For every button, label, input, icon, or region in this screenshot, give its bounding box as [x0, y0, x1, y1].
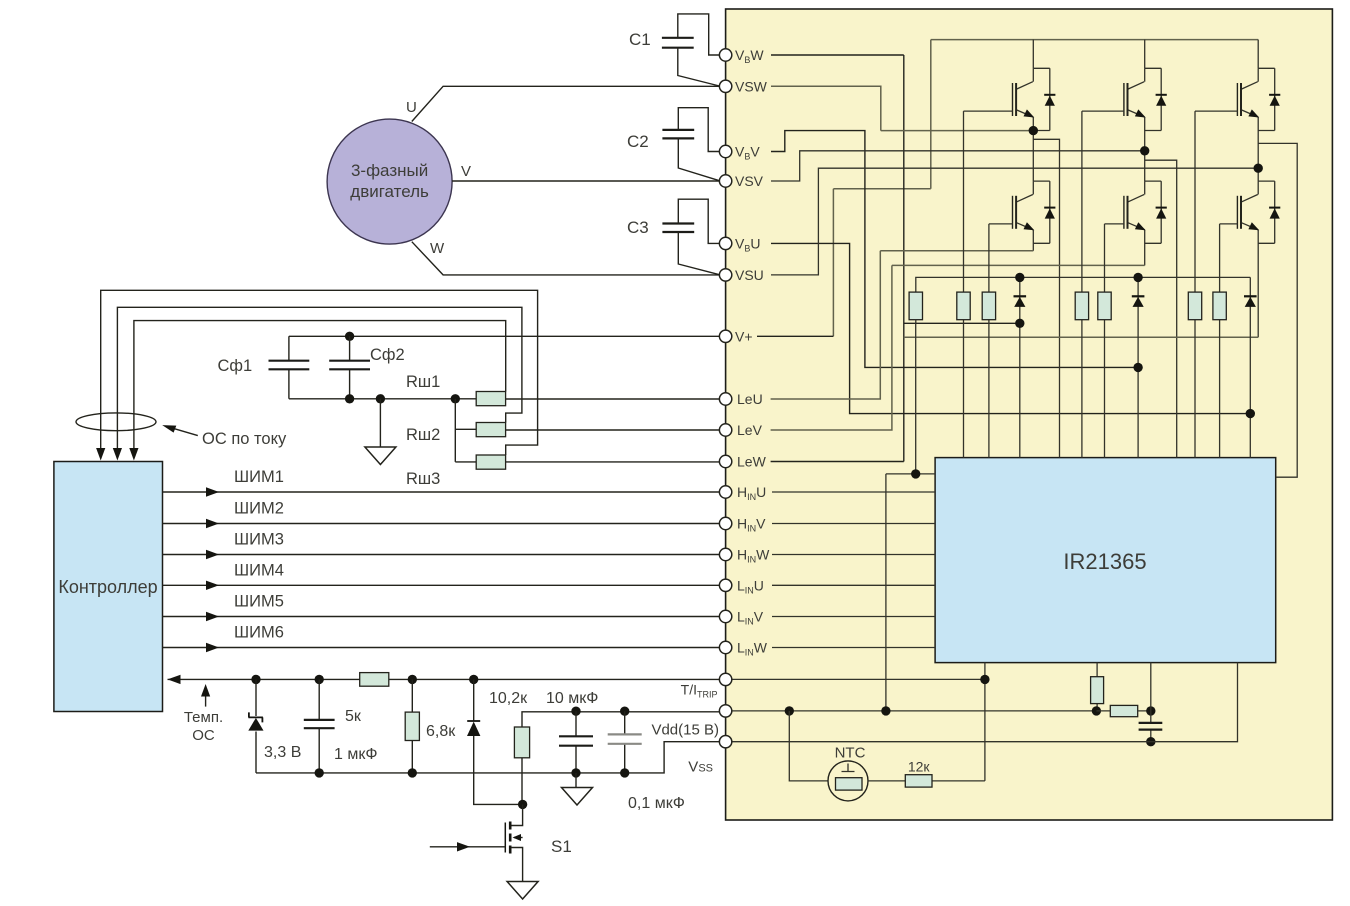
- motor M1 3-phase: [327, 119, 452, 244]
- wire V+ pin to rail: [757, 335, 833, 337]
- IGBT Q1 high-side W: [1032, 40, 1034, 69]
- wire VBU pin to bootstrap diode D3 anode: [771, 243, 1250, 413]
- wire Vdd pin rail inside module: [732, 710, 1097, 712]
- resistor Rboot (common bootstrap resistor): [909, 292, 922, 320]
- svg-text:W: W: [430, 240, 445, 257]
- svg-text:Контроллер: Контроллер: [58, 577, 157, 597]
- pin Vss: [719, 736, 731, 748]
- pin VBU: [719, 237, 731, 249]
- wire motor U to VSW: [412, 86, 720, 121]
- svg-text:10,2к: 10,2к: [489, 690, 528, 707]
- svg-text:V+: V+: [735, 328, 753, 344]
- wire PWM4: [163, 584, 720, 586]
- wire VBW pin to vertical bus: [771, 54, 904, 56]
- thermistor NTC: [828, 761, 868, 801]
- node Vdd gate-supply branch: [881, 706, 890, 715]
- wire PWM5: [163, 616, 720, 618]
- svg-text:3,3 В: 3,3 В: [264, 744, 301, 761]
- wire Rsh2 to LeV: [506, 429, 720, 431]
- svg-text:ШИМ6: ШИМ6: [234, 624, 284, 642]
- wire motor V to VSV: [452, 180, 719, 182]
- pin LinV: [719, 610, 731, 622]
- svg-text:LeU: LeU: [737, 391, 763, 407]
- node D1 anode junction: [1015, 319, 1024, 328]
- wire low-side U emitter to LeW bus: [904, 336, 1258, 338]
- capacitor Cf2: [349, 336, 351, 399]
- svg-text:C3: C3: [627, 218, 649, 237]
- capacitor C2: [662, 130, 694, 139]
- svg-text:двигатель: двигатель: [350, 182, 429, 201]
- wire feedback loop 3 (inner): [134, 321, 506, 450]
- wire Vdd to cap node: [1096, 710, 1150, 712]
- IR21365 driver IC U1: [935, 458, 1276, 663]
- svg-text:ШИМ1: ШИМ1: [234, 468, 284, 486]
- arrows into controller top: [96, 448, 105, 461]
- svg-text:IR21365: IR21365: [1063, 549, 1146, 574]
- svg-text:LeW: LeW: [737, 454, 767, 470]
- pin V+: [719, 330, 731, 342]
- current sense ellipse: [76, 413, 156, 431]
- svg-text:NTC: NTC: [835, 745, 866, 762]
- node R bottom junction: [1092, 706, 1101, 715]
- wire V+ filter rail: [289, 335, 719, 337]
- pin HinW: [719, 548, 731, 560]
- controller block: [54, 462, 163, 712]
- diode D1 bootstrap W: [1019, 277, 1021, 323]
- pin LeU: [719, 393, 731, 405]
- wire Rsh3 to LeW: [506, 461, 720, 463]
- svg-text:Vdd(15 В): Vdd(15 В): [651, 722, 719, 739]
- svg-text:Rш3: Rш3: [406, 470, 440, 488]
- wire VSW pin to half-bridge W midpoint: [771, 86, 881, 130]
- node zener junction: [251, 675, 260, 684]
- svg-text:ШИМ5: ШИМ5: [234, 593, 284, 611]
- svg-text:Сф1: Сф1: [218, 357, 253, 375]
- wire gate-supply node to IC and Vdd: [886, 323, 935, 711]
- wire filter ground rail: [289, 398, 476, 400]
- svg-text:T/ITRIP: T/ITRIP: [681, 682, 718, 700]
- wire VBV pin to bootstrap diode D2 anode: [771, 131, 1138, 368]
- wire U midpoint jog to IC VS3 (right side): [1258, 143, 1297, 477]
- wire T/Itrip pin to IC Itrip: [732, 663, 985, 781]
- svg-text:C2: C2: [627, 132, 649, 151]
- pin VSU: [719, 269, 731, 281]
- wire Vss pin to IC com: [732, 663, 1238, 742]
- wire bootstrap cathode bus: [916, 277, 1251, 292]
- node D3 anode junction: [1246, 409, 1255, 418]
- wire Itrip feedback line to controller: [168, 678, 720, 680]
- svg-text:VSS: VSS: [688, 759, 713, 776]
- svg-text:V: V: [461, 163, 471, 180]
- wire LeW pin to low U emitter: [771, 461, 904, 463]
- node gate-supply junction: [911, 469, 920, 478]
- IGBT Q2 low-side W: [1032, 131, 1034, 182]
- svg-text:3-фазный: 3-фазный: [351, 161, 428, 180]
- node diode VD2 top: [469, 675, 478, 684]
- node D2 anode junction: [1133, 363, 1142, 372]
- node filter ground branch: [376, 394, 385, 403]
- wire HinU input to IC: [772, 491, 935, 493]
- capacitor C 0,1uF: [624, 711, 626, 773]
- svg-text:VBW: VBW: [735, 47, 764, 65]
- IGBT Q4 low-side V: [1144, 151, 1146, 181]
- node half-bridge U midpoint: [1254, 164, 1263, 173]
- wire V midpoint jog to IC VS2: [1145, 160, 1177, 457]
- svg-text:ШИМ4: ШИМ4: [234, 561, 284, 579]
- IGBT Q6 low-side U: [1257, 168, 1259, 181]
- svg-text:Rш1: Rш1: [406, 373, 440, 391]
- node ground rail junctions: [315, 768, 324, 777]
- wire LinU input to IC: [772, 584, 935, 586]
- pin LinW: [719, 641, 731, 653]
- wire bootstrap diode D1 anode line: [904, 322, 1020, 324]
- node C 1uF top: [315, 675, 324, 684]
- svg-text:ШИМ3: ШИМ3: [234, 531, 284, 549]
- pin VBV: [719, 145, 731, 157]
- node D2 cathode on bus: [1133, 273, 1142, 282]
- wire VSU pin to half-bridge U midpoint: [771, 168, 1258, 275]
- svg-text:10 мкФ: 10 мкФ: [546, 690, 598, 707]
- ground under 10uF: [575, 773, 577, 787]
- node Vdd-NTC branch: [785, 706, 794, 715]
- node cap bottom on Vss: [1146, 737, 1155, 746]
- resistor R 5k (series): [360, 673, 389, 687]
- wire IC pin to cap: [1150, 663, 1152, 742]
- wire PWM1: [163, 491, 720, 493]
- svg-text:C1: C1: [629, 30, 651, 49]
- capacitor C3: [662, 224, 694, 233]
- pin LinU: [719, 579, 731, 591]
- pin VSW: [719, 80, 731, 92]
- svg-text:VSU: VSU: [735, 267, 764, 283]
- resistor Rg2 (low W gate): [988, 224, 990, 458]
- wire motor W to VSU: [412, 242, 720, 275]
- resistor R 6,8k: [411, 679, 413, 773]
- svg-text:Сф2: Сф2: [370, 346, 405, 364]
- wire VSV pin to half-bridge V midpoint: [771, 151, 1145, 181]
- zener diode VD1 3,3 V: [255, 679, 257, 716]
- label OC po toku with arrow: [166, 426, 198, 435]
- resistor Rsh2: [476, 423, 505, 437]
- svg-text:VSW: VSW: [735, 78, 768, 94]
- svg-text:6,8к: 6,8к: [426, 723, 456, 740]
- diode D3 bootstrap U: [1249, 277, 1251, 457]
- node V+ rail (top DC bus): [833, 40, 1258, 337]
- resistor R IC-bottom vertical: [1096, 663, 1098, 711]
- diode VD2: [473, 679, 475, 721]
- node R 6,8k top: [408, 675, 417, 684]
- svg-text:ОС по току: ОС по току: [202, 430, 287, 448]
- ground filter: [379, 399, 381, 447]
- pin HinV: [719, 517, 731, 529]
- resistor R 10,2k: [522, 712, 719, 805]
- node D1 cathode on bus: [1015, 273, 1024, 282]
- IGBT Q3 high-side V: [1144, 40, 1146, 69]
- wire HinW input to IC: [772, 554, 935, 556]
- wire low-side W emitter to LeU bus: [880, 250, 1033, 252]
- capacitor Cf1: [288, 336, 290, 399]
- IGBT Q5 high-side U: [1257, 40, 1259, 69]
- resistor R 12k: [868, 780, 985, 782]
- wire Vss step to ground rail: [256, 742, 719, 773]
- svg-text:0,1 мкФ: 0,1 мкФ: [628, 795, 685, 812]
- ground under S1: [507, 882, 538, 900]
- pin VBW: [719, 49, 731, 61]
- transistor S1 MOSFET: [511, 804, 523, 825]
- wire HinV input to IC: [772, 523, 935, 525]
- node half-bridge V midpoint: [1140, 146, 1149, 155]
- wire PWM3: [163, 554, 720, 556]
- capacitor C 1uF: [318, 679, 320, 773]
- resistor Rg5 (high U gate): [1194, 111, 1196, 458]
- resistor Rg6 (low U gate): [1219, 224, 1221, 458]
- resistor Rg4 (low V gate): [1104, 224, 1106, 458]
- node Vdd rail caps: [571, 707, 580, 716]
- wire feedback loop 1 (outer): [101, 290, 538, 455]
- svg-text:LeV: LeV: [737, 422, 763, 438]
- wire low-side V emitter to LeV bus: [892, 264, 1145, 266]
- capacitor C IC-bottom: [1139, 723, 1163, 730]
- node Itrip junction: [980, 675, 989, 684]
- pin VSV: [719, 175, 731, 187]
- capacitor C 10uF: [575, 711, 577, 773]
- svg-text:U: U: [406, 99, 417, 116]
- svg-text:ОС: ОС: [192, 727, 215, 744]
- pin LeV: [719, 424, 731, 436]
- wire LeV pin to low V emitter: [771, 265, 892, 430]
- node Cf2 top: [345, 332, 354, 341]
- resistor Rsh1: [476, 392, 505, 406]
- svg-text:S1: S1: [551, 837, 572, 856]
- node cap top junction: [1146, 706, 1155, 715]
- resistor R IC-bottom horizontal: [1110, 705, 1137, 716]
- wire W midpoint jog to IC VS1: [1033, 139, 1059, 457]
- node shunt common: [451, 394, 460, 403]
- pin Vdd: [719, 705, 731, 717]
- wire Rsh1 to LeU: [506, 398, 720, 400]
- pin LeW: [719, 455, 731, 467]
- wire shunt common vertical: [455, 399, 476, 462]
- capacitor C1: [662, 38, 694, 48]
- diode D2 bootstrap V: [1137, 277, 1139, 457]
- wire LinV input to IC: [772, 616, 935, 618]
- resistor Rsh3: [476, 455, 505, 469]
- svg-text:VSV: VSV: [735, 173, 764, 189]
- svg-text:12к: 12к: [908, 759, 931, 775]
- label Temp OC with arrow: [205, 694, 207, 707]
- wire LeU pin to low W emitter: [771, 251, 881, 399]
- wire PWM6: [163, 647, 720, 649]
- svg-text:ШИМ2: ШИМ2: [234, 500, 284, 518]
- svg-text:Темп.: Темп.: [184, 709, 223, 726]
- resistor Rg1 (high W gate): [963, 111, 965, 458]
- pin T/Itrip: [719, 673, 731, 685]
- wire LinW input to IC: [772, 647, 935, 649]
- wire VBW/LeW vertical bus: [903, 55, 905, 462]
- svg-text:5к: 5к: [345, 708, 362, 725]
- wire PWM2: [163, 523, 720, 525]
- svg-text:Rш2: Rш2: [406, 426, 440, 444]
- node half-bridge W midpoint: [1029, 126, 1038, 135]
- node S1 drain junction: [518, 800, 527, 809]
- pin HinU: [719, 486, 731, 498]
- resistor Rg3 (high V gate): [1081, 111, 1083, 458]
- wire NTC branch down: [789, 711, 828, 781]
- IPM module yellow block: [726, 9, 1333, 820]
- svg-text:1 мкФ: 1 мкФ: [334, 746, 378, 763]
- wire feedback loop 2: [117, 307, 522, 449]
